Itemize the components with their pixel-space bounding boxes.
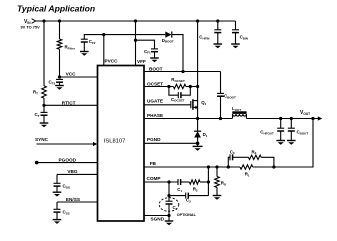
svg-text:R2: R2: [193, 186, 198, 192]
wire VIN drop column: [197, 21, 199, 119]
wire VCC pin: [60, 76, 98, 78]
svg-text:LOUT: LOUT: [232, 106, 241, 112]
svg-text:CBIN: CBIN: [240, 35, 248, 41]
wire CF1 to ground: [154, 52, 156, 58]
capacitor C4 optional: [166, 200, 173, 202]
wire RT/CT pin: [44, 104, 98, 106]
wire C4 upper lead: [168, 196, 170, 202]
svg-text:BOOT: BOOT: [149, 66, 163, 71]
wire PGOOD: [37, 162, 98, 164]
svg-text:RFilter: RFilter: [65, 45, 76, 51]
wire C3 branch left leg: [228, 157, 230, 167]
wire CBG lead: [56, 174, 58, 183]
node COMP-FB vertical junction: [207, 180, 210, 183]
wire DBOOT to BOOT: [172, 35, 183, 72]
wire R3 branch right leg: [261, 157, 274, 167]
wire ROCSET to node: [186, 86, 190, 88]
svg-text:RO: RO: [221, 181, 227, 187]
wire VBG: [57, 173, 98, 175]
svg-text:CF3: CF3: [49, 80, 56, 86]
capacitor CT: [41, 111, 48, 113]
dashed ellipse optional C4: [159, 198, 179, 212]
capacitor CF2: [81, 38, 88, 40]
capacitor CBOUT: [290, 119, 292, 129]
wire Rfilter column upper: [59, 21, 61, 39]
wire SYNC: [37, 143, 95, 145]
wire PGND to ground: [197, 143, 199, 146]
capacitor C1: [177, 179, 179, 185]
node FB comp junction: [207, 165, 210, 168]
svg-text:9V TO 75V: 9V TO 75V: [21, 24, 41, 29]
wire PVCC pin: [103, 35, 105, 66]
capacitor CBOOT: [217, 92, 224, 94]
svg-text:COMP: COMP: [147, 176, 161, 181]
resistor R3: [248, 155, 261, 159]
wire OCSET pin: [144, 86, 169, 88]
capacitor CHFOUT: [280, 119, 282, 129]
node CBOUT junction: [290, 117, 293, 120]
node OCSET-VIN junction: [196, 85, 199, 88]
ground RO: [213, 195, 222, 197]
wire Rfilter to VCC: [59, 49, 61, 77]
wire C2 branch left: [168, 182, 170, 196]
svg-text:PVCC: PVCC: [105, 58, 119, 63]
ground PGND: [193, 145, 203, 147]
svg-text:SYNC: SYNC: [35, 137, 49, 142]
resistor RT: [42, 86, 47, 98]
node CF1 tap: [134, 39, 137, 42]
svg-text:UGATE: UGATE: [147, 99, 163, 104]
wire RO upper: [216, 167, 218, 177]
wire CF2 elbow: [84, 35, 165, 40]
svg-text:R1: R1: [245, 172, 250, 178]
resistor R1: [240, 165, 253, 169]
wire EN/SS: [57, 201, 98, 203]
node VIN-CHFIN junction: [216, 19, 219, 22]
diode D1: [197, 119, 199, 132]
node FB R3 junction: [272, 165, 275, 168]
svg-text:FB: FB: [150, 161, 157, 166]
svg-text:RT/CT: RT/CT: [62, 100, 76, 105]
node PVCC junction: [102, 33, 105, 36]
ground CF2: [80, 51, 89, 53]
svg-text:CBG: CBG: [63, 184, 71, 190]
wire SGND pin: [144, 215, 169, 217]
svg-text:CF1: CF1: [144, 49, 151, 55]
capacitor C3: [229, 154, 231, 160]
svg-text:D1: D1: [203, 132, 208, 138]
node OCSET right junction: [189, 85, 192, 88]
svg-text:CSS: CSS: [63, 210, 70, 216]
capacitor CBIN: [235, 21, 237, 30]
svg-text:CBOUT: CBOUT: [297, 130, 309, 136]
wire CT lead: [43, 105, 45, 112]
wire RO to ground: [216, 188, 218, 196]
node VOUT tap junction: [311, 117, 314, 120]
node OCSET left junction: [167, 85, 170, 88]
wire COMP pin: [144, 181, 178, 183]
node CHFOUT junction: [279, 117, 282, 120]
arrow SYNC into IC: [93, 142, 97, 146]
wire VIN rail: [36, 20, 236, 22]
IC U1 ISL8107: [98, 66, 145, 222]
node VIN-RT junction: [42, 19, 45, 22]
capacitor CHFIN: [217, 21, 219, 30]
svg-text:C2: C2: [186, 198, 191, 204]
svg-text:VBG: VBG: [67, 169, 78, 174]
wire CF1 branch: [136, 40, 155, 49]
wire FB pin: [144, 166, 240, 168]
svg-text:VFF: VFF: [137, 59, 146, 64]
svg-text:C1: C1: [177, 187, 182, 193]
node C2 branch junction: [167, 194, 170, 197]
wire CT to ground: [43, 115, 45, 123]
ground CF3: [55, 85, 64, 87]
node PHASE-Q1 junction: [196, 117, 199, 120]
node COMP C4 junction: [167, 180, 170, 183]
capacitor COCSET: [177, 92, 179, 98]
wire C3 to R3: [233, 156, 249, 158]
svg-text:EN/SS: EN/SS: [66, 197, 80, 202]
ground CT: [40, 122, 49, 124]
wire VFF column: [135, 21, 137, 66]
svg-text:RT: RT: [33, 90, 38, 96]
wire C4 lower lead: [168, 204, 170, 216]
svg-text:CT: CT: [35, 112, 40, 118]
wire RT to RT/CT: [43, 98, 45, 105]
node VIN-VFF junction: [134, 19, 137, 22]
wire CSS lead: [56, 202, 58, 209]
node VIN-Q1 junction: [196, 19, 199, 22]
inductor LOUT: [232, 111, 246, 114]
wire C2 branch right: [188, 195, 208, 197]
svg-text:CF2: CF2: [89, 39, 96, 45]
node VIN-Rfilter junction: [58, 19, 61, 22]
wire OCSET to VIN drop: [190, 86, 197, 88]
diode DBOOT: [165, 32, 171, 38]
ground SGND: [165, 220, 174, 222]
wire CBOOT upper: [220, 72, 222, 94]
resistor ROCSET: [173, 84, 186, 88]
capacitor CBG: [54, 182, 61, 184]
svg-text:ROCSET: ROCSET: [171, 77, 185, 83]
wire R1 to node: [253, 166, 274, 168]
wire PGND pin: [144, 142, 198, 144]
svg-text:CHFIN: CHFIN: [199, 35, 209, 41]
node FB RO junction: [215, 165, 218, 168]
node FB C3 junction: [227, 165, 230, 168]
svg-text:OPTIONAL: OPTIONAL: [177, 213, 197, 217]
svg-text:CBOOT: CBOOT: [224, 94, 236, 100]
node SGND junction: [167, 214, 170, 217]
wire CF3 to ground: [59, 82, 61, 85]
ground CHFOUT: [276, 140, 285, 142]
wire VOUT rail: [247, 118, 319, 120]
VIN arrow: [32, 19, 36, 24]
wire PHASE pin: [144, 118, 232, 120]
ground CHFIN: [214, 43, 223, 45]
wire C1 to R2: [181, 181, 190, 183]
svg-text:SGND: SGND: [151, 217, 165, 222]
svg-text:R3: R3: [252, 149, 257, 155]
svg-text:Q1: Q1: [201, 100, 206, 106]
svg-text:DBOOT: DBOOT: [162, 38, 174, 44]
wire OCSET to ROCSET: [169, 86, 173, 88]
svg-text:VOUT: VOUT: [300, 110, 310, 116]
wire COCSET right leg: [181, 87, 190, 96]
wire CBOOT lower: [220, 96, 222, 118]
ground CBOUT: [287, 140, 296, 142]
transistor Q1: [190, 101, 192, 108]
wire CF2 to ground: [83, 42, 85, 52]
svg-text:ISL8107: ISL8107: [104, 139, 126, 145]
node PHASE-CBOOT junction: [219, 117, 222, 120]
ground CBIN: [231, 43, 240, 45]
arrow VOUT: [318, 116, 323, 120]
node PGND junction: [196, 142, 200, 146]
wire FB vertical: [207, 167, 209, 196]
ground CF1: [150, 57, 159, 59]
svg-text:CHFOUT: CHFOUT: [260, 130, 274, 136]
ground CBG: [53, 191, 62, 193]
svg-text:Typical Application: Typical Application: [17, 3, 95, 13]
svg-text:PGND: PGND: [147, 137, 161, 142]
resistor R2: [189, 180, 200, 184]
wire VOUT tap to FB network: [274, 119, 313, 168]
svg-text:VCC: VCC: [66, 71, 77, 76]
node BOOT-DBOOT junction: [181, 70, 184, 73]
resistor RO: [215, 177, 220, 188]
wire BOOT: [144, 71, 221, 73]
wire RT column upper: [43, 21, 45, 86]
capacitor C2: [185, 193, 187, 199]
resistor RFilter: [57, 39, 62, 49]
wire R2 to FB vertical: [200, 181, 208, 183]
wire SGND to ground: [168, 216, 170, 222]
capacitor CSS: [54, 208, 61, 210]
node RT/CT junction: [42, 104, 45, 107]
svg-text:OCSET: OCSET: [147, 81, 163, 86]
svg-text:PGOOD: PGOOD: [59, 158, 77, 163]
wire UGATE pin: [144, 104, 191, 106]
svg-text:PHASE: PHASE: [147, 113, 163, 118]
node VCC junction: [58, 75, 61, 78]
ground CSS: [53, 219, 62, 221]
capacitor CF3: [56, 78, 63, 80]
capacitor CF1: [151, 48, 158, 50]
node PGOOD terminal dot: [35, 161, 39, 165]
wire COCSET left leg: [169, 87, 178, 96]
